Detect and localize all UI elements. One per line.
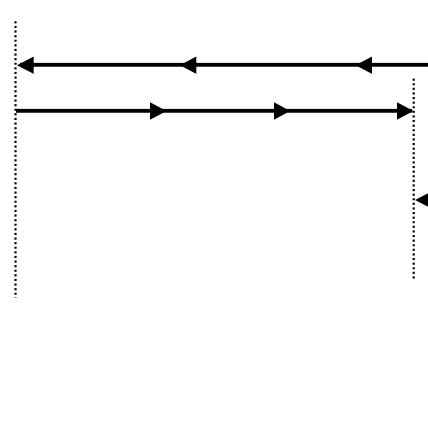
message arrow 1 line (leftward, top) [20,63,428,67]
arrowhead 1a (left, at left lifeline) [17,57,34,74]
message arrow 3 head (leftward, at right lifeline, clipped at right edge) [415,191,428,209]
arrowhead 1b (left, middle) [180,57,196,74]
arrowhead 1c (left, right side) [356,57,373,74]
message arrow 2 line (rightward) [16,109,412,113]
arrowhead 2b (right, middle) [274,102,290,119]
arrowhead 2a (right, left-middle) [150,102,167,119]
lifeline right (dotted vertical) [413,79,415,279]
lifeline left (dotted vertical) [14,21,16,297]
arrowhead 2c (right, at right lifeline) [397,102,414,119]
